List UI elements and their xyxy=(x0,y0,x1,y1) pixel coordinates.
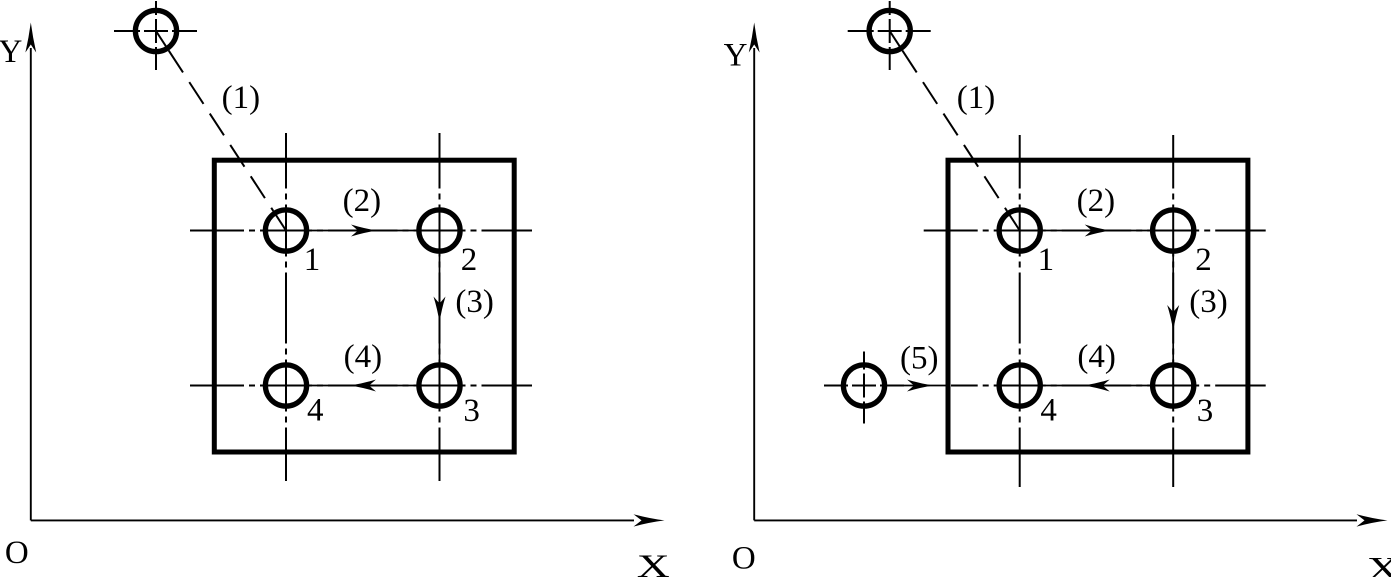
svg-text:2: 2 xyxy=(1195,242,1212,278)
svg-text:(1): (1) xyxy=(222,80,260,116)
svg-text:O: O xyxy=(5,535,29,571)
svg-text:4: 4 xyxy=(1040,393,1057,429)
svg-text:(5): (5) xyxy=(900,341,938,377)
svg-text:(1): (1) xyxy=(957,80,995,116)
svg-text:2: 2 xyxy=(461,242,478,278)
svg-text:4: 4 xyxy=(307,393,324,429)
svg-text:(3): (3) xyxy=(455,284,493,320)
svg-text:3: 3 xyxy=(1197,393,1214,429)
svg-text:1: 1 xyxy=(304,242,321,278)
svg-text:Y: Y xyxy=(724,37,748,73)
svg-text:Y: Y xyxy=(0,34,22,70)
svg-text:(2): (2) xyxy=(1077,183,1115,219)
svg-text:X: X xyxy=(1367,552,1391,577)
svg-text:1: 1 xyxy=(1038,242,1055,278)
svg-text:O: O xyxy=(732,540,756,576)
svg-text:3: 3 xyxy=(463,393,480,429)
svg-text:(4): (4) xyxy=(1077,339,1115,375)
svg-text:X: X xyxy=(637,549,670,577)
svg-text:(3): (3) xyxy=(1189,284,1227,320)
svg-text:(2): (2) xyxy=(343,183,381,219)
svg-text:(4): (4) xyxy=(344,339,382,375)
